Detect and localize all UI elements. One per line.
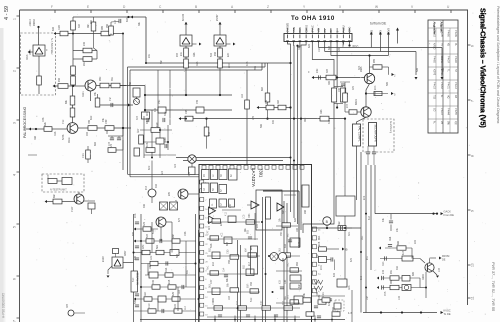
svg-text:71R: 71R <box>62 119 65 124</box>
svg-text:1: 1 <box>13 18 17 20</box>
cluster verticals <box>143 116 145 158</box>
svg-text:08C: 08C <box>304 117 307 122</box>
svg-text:75C: 75C <box>158 99 161 104</box>
svg-text:IC: IC <box>440 95 442 98</box>
diode zigzags right of IC <box>314 280 323 284</box>
svg-text:5R8: 5R8 <box>210 243 213 248</box>
bias chain above V201 <box>72 85 74 123</box>
svg-text:865: 865 <box>132 231 135 236</box>
dashed fragment <box>335 300 344 311</box>
svg-text:P 4-63: P 4-63 <box>433 30 435 37</box>
wire row y110 <box>145 109 232 111</box>
transistor V201 <box>67 123 78 134</box>
svg-text:4C6: 4C6 <box>146 142 149 147</box>
svg-text:KABO: KABO <box>433 43 436 50</box>
long row y118 <box>179 117 181 120</box>
resistor below loop box <box>338 226 346 231</box>
DE arrows <box>370 32 373 35</box>
svg-text:99n: 99n <box>172 233 175 238</box>
transistor T691 <box>364 73 374 83</box>
wire long vertical x123 <box>122 34 124 171</box>
svg-text:7C5: 7C5 <box>384 291 387 296</box>
svg-text:212: 212 <box>208 131 211 136</box>
svg-text:CO: CO <box>433 108 435 112</box>
parallel RC pair <box>72 34 74 51</box>
svg-text:BF: BF <box>329 29 333 33</box>
branch to down arrow x416 <box>380 51 416 53</box>
mixer boxes <box>160 202 168 210</box>
svg-text:TV: TV <box>440 43 442 46</box>
svg-text:kR5: kR5 <box>168 279 171 284</box>
svg-text:8R2: 8R2 <box>90 115 93 120</box>
svg-text:598: 598 <box>282 257 285 262</box>
cluster row 8 <box>134 310 196 312</box>
svg-text:2n6: 2n6 <box>414 239 417 244</box>
collector row of V201 <box>78 127 88 129</box>
row y77 chroma feed <box>313 77 364 79</box>
svg-text:H-P90 030907M5: H-P90 030907M5 <box>2 293 6 318</box>
svg-text:Potentialabfragen und Schaltpl: Potentialabfragen und Schaltpläne / Layo… <box>496 6 500 124</box>
svg-text:FROM: FROM <box>442 255 449 258</box>
resistor chain x88 <box>86 150 91 159</box>
svg-text:045: 045 <box>374 91 377 96</box>
svg-text:W: W <box>375 5 378 9</box>
SECAM OUFR box <box>369 123 377 147</box>
svg-text:GACK: GACK <box>444 210 452 214</box>
transistor circle at IC edge <box>178 189 188 199</box>
emitter to PAL delay <box>357 117 367 124</box>
svg-text:RR9: RR9 <box>58 25 61 30</box>
svg-text:7: 7 <box>471 100 475 102</box>
extra bottom components <box>303 298 311 302</box>
svg-text:11: 11 <box>471 296 475 300</box>
resistor pair on x337 <box>336 86 338 88</box>
transistor T692 <box>361 107 371 117</box>
IC inner components <box>212 219 221 223</box>
svg-text:948: 948 <box>214 51 217 56</box>
svg-text:k84: k84 <box>245 247 248 252</box>
svg-text:SECAM AV: SECAM AV <box>135 273 138 286</box>
svg-text:79C: 79C <box>280 231 283 236</box>
svg-text:995: 995 <box>373 58 376 63</box>
svg-text:k5797: k5797 <box>216 14 219 21</box>
svg-text:0297: 0297 <box>124 250 127 256</box>
svg-text:B: B <box>346 248 348 252</box>
dashed service box top-left <box>21 33 56 95</box>
svg-text:CHRO: CHRO <box>304 25 308 33</box>
svg-text:nkn: nkn <box>338 220 341 225</box>
svg-text:P 4-55: P 4-55 <box>454 108 456 115</box>
svg-text:586: 586 <box>260 123 263 128</box>
svg-text:222: 222 <box>174 303 177 308</box>
svg-text:2n6: 2n6 <box>265 99 268 104</box>
svg-text:71n: 71n <box>109 96 112 101</box>
svg-text:180: 180 <box>296 227 299 232</box>
cluster row 5 <box>145 274 196 276</box>
svg-text:TX: TX <box>380 30 383 33</box>
svg-text:170: 170 <box>252 115 255 120</box>
svg-text:HQ: HQ <box>447 95 449 99</box>
svg-text:P 4-07: P 4-07 <box>447 56 449 63</box>
svg-text:8R3: 8R3 <box>126 17 129 22</box>
svg-text:CR1: CR1 <box>82 153 85 158</box>
svg-text:726: 726 <box>212 297 215 302</box>
svg-text:137: 137 <box>438 267 441 272</box>
svg-text:099: 099 <box>101 25 104 30</box>
wire y228 right of IC <box>312 227 362 229</box>
svg-text:Cn4: Cn4 <box>223 267 226 272</box>
svg-text:603: 603 <box>52 26 55 31</box>
svg-text:DH3: DH3 <box>298 27 302 33</box>
branch to down arrow x442 <box>371 47 442 49</box>
svg-text:0R1: 0R1 <box>361 235 364 240</box>
svg-text:0R1k: 0R1k <box>68 137 71 143</box>
IC inner tall box <box>251 246 258 274</box>
IC inner right blocks <box>290 238 300 247</box>
svg-text:4C3: 4C3 <box>246 61 249 66</box>
svg-text:347: 347 <box>136 115 139 120</box>
svg-text:684: 684 <box>261 86 264 91</box>
wire pin routing to DE <box>318 42 320 48</box>
svg-text:C65: C65 <box>185 109 188 114</box>
svg-text:C57: C57 <box>229 203 232 208</box>
IC top pin squares <box>202 165 206 169</box>
DE arrow 4 <box>396 28 399 31</box>
svg-text:Ausführung: Ausführung <box>389 121 392 134</box>
svg-text:6n8: 6n8 <box>328 45 331 50</box>
collector row V101 <box>96 85 100 87</box>
IC amp triangle 2 <box>277 203 284 211</box>
svg-text:P 4-10: P 4-10 <box>440 108 442 115</box>
svg-text:1C5: 1C5 <box>243 214 246 219</box>
svg-text:5276: 5276 <box>62 134 65 140</box>
svg-text:n84: n84 <box>277 99 280 104</box>
svg-text:4: 4 <box>13 174 17 176</box>
svg-text:kC2: kC2 <box>363 195 366 200</box>
svg-text:R49: R49 <box>338 47 341 52</box>
svg-text:kk1: kk1 <box>250 246 253 250</box>
IC amp triangle 1 <box>251 201 259 209</box>
divider top right <box>109 26 114 35</box>
svg-text:nRn: nRn <box>382 261 385 266</box>
network cluster R1 <box>385 247 412 249</box>
svg-text:Rk8: Rk8 <box>389 236 392 241</box>
svg-text:6: 6 <box>13 278 17 280</box>
svg-text:P 4-62: P 4-62 <box>440 82 442 89</box>
emitter resistor T691 <box>374 91 382 95</box>
svg-text:S: S <box>335 31 339 33</box>
svg-text:LA7437A: LA7437A <box>251 168 256 188</box>
svg-text:427: 427 <box>328 301 331 306</box>
svg-text:83n: 83n <box>298 283 301 288</box>
svg-text:852: 852 <box>243 264 246 269</box>
svg-text:537: 537 <box>146 233 149 238</box>
IC inner bus bundle <box>262 197 264 322</box>
transistor T801 right <box>425 263 434 272</box>
svg-text:2C6: 2C6 <box>134 213 137 218</box>
svg-text:Ck3: Ck3 <box>165 267 168 272</box>
svg-text:n913: n913 <box>26 54 29 60</box>
svg-text:2CR: 2CR <box>320 265 323 270</box>
svg-text:R52: R52 <box>316 291 319 296</box>
svg-text:k47: k47 <box>236 300 239 305</box>
svg-text:n20: n20 <box>212 207 215 212</box>
svg-text:n97: n97 <box>66 303 69 308</box>
svg-text:n92: n92 <box>328 80 331 85</box>
svg-text:361: 361 <box>284 295 287 300</box>
svg-text:86n: 86n <box>282 209 285 214</box>
svg-text:nCC: nCC <box>228 63 231 68</box>
svg-text:353: 353 <box>254 65 257 70</box>
wire left border feed <box>24 128 35 130</box>
svg-text:Rn7: Rn7 <box>137 128 140 133</box>
svg-text:783: 783 <box>250 281 253 286</box>
svg-text:412: 412 <box>225 211 228 216</box>
svg-text:DE: DE <box>442 259 446 262</box>
svg-text:kC5: kC5 <box>318 241 321 246</box>
wire bundle from connector <box>288 42 291 213</box>
svg-text:486: 486 <box>143 203 146 208</box>
svg-text:481: 481 <box>186 269 189 274</box>
svg-text:k95: k95 <box>168 191 171 196</box>
svg-text:672: 672 <box>350 257 353 262</box>
scan edge shading left <box>0 28 4 322</box>
wire pair into IC left <box>128 173 200 175</box>
svg-text:FUBU: FUBU <box>342 25 346 32</box>
svg-text:00C: 00C <box>106 129 109 134</box>
svg-text:889: 889 <box>412 271 415 276</box>
feed drop x247 <box>246 70 248 165</box>
svg-text:to/from DE: to/from DE <box>370 22 387 26</box>
cluster row 2 <box>134 240 196 242</box>
svg-text:SYNC: SYNC <box>311 25 315 32</box>
drop x267 from bus <box>267 63 269 119</box>
IC left pin squares <box>200 180 204 184</box>
svg-text:nR6: nR6 <box>54 131 57 136</box>
svg-text:66n: 66n <box>53 193 56 198</box>
svg-text:288: 288 <box>304 209 307 214</box>
svg-text:828: 828 <box>294 217 297 222</box>
svg-text:666: 666 <box>397 240 400 245</box>
svg-text:nR21: nR21 <box>82 91 85 97</box>
IC inner wires <box>207 221 260 223</box>
PAL COMPL delay box <box>353 124 361 146</box>
svg-text:483: 483 <box>155 183 158 188</box>
svg-text:304: 304 <box>78 23 81 28</box>
svg-text:948: 948 <box>58 77 61 82</box>
bottom-left small circle <box>68 310 74 316</box>
svg-text:n68: n68 <box>34 135 37 140</box>
svg-text:676: 676 <box>172 291 175 296</box>
svg-text:589: 589 <box>176 253 179 258</box>
emitter V101 down <box>90 91 92 101</box>
svg-text:726: 726 <box>152 279 155 284</box>
svg-text:P 4-12: P 4-12 <box>454 82 456 89</box>
boxed transistor lower-left <box>112 257 123 268</box>
svg-text:07R: 07R <box>142 244 145 249</box>
network above collector row <box>98 104 133 106</box>
collector V101 to cluster <box>120 85 145 87</box>
cluster components <box>146 118 148 122</box>
svg-text:222: 222 <box>256 223 259 228</box>
collector network T691 <box>369 56 371 74</box>
svg-text:AN: AN <box>323 29 327 33</box>
cluster row 3 <box>134 252 196 254</box>
svg-text:247: 247 <box>346 103 349 108</box>
bottom components right of IC <box>312 295 345 297</box>
svg-text:Rn3: Rn3 <box>348 285 351 290</box>
wire secondary bus <box>128 66 266 68</box>
svg-text:5: 5 <box>13 226 17 228</box>
svg-text:617: 617 <box>402 250 405 255</box>
svg-text:51R: 51R <box>250 297 253 302</box>
svg-text:1k3: 1k3 <box>178 289 181 294</box>
svg-text:883: 883 <box>94 141 97 146</box>
svg-text:F: F <box>51 5 53 9</box>
svg-text:462: 462 <box>396 265 399 270</box>
wire pin to right loop <box>303 42 334 234</box>
wire bus drop x340 <box>336 42 338 87</box>
svg-text:620: 620 <box>308 43 311 48</box>
svg-text:16613: 16613 <box>29 19 32 26</box>
svg-text:Rn1: Rn1 <box>207 265 210 270</box>
IC inner block row 2 <box>202 183 210 193</box>
scan speckle <box>134 179 137 182</box>
svg-text:114: 114 <box>184 306 187 310</box>
svg-text:6: 6 <box>471 45 475 47</box>
svg-text:90830: 90830 <box>33 19 36 26</box>
svg-text:P 4-09: P 4-09 <box>454 30 456 37</box>
IC tall blocks <box>266 197 271 219</box>
svg-text:CVB: CVB <box>388 28 391 33</box>
svg-text:6n3: 6n3 <box>161 170 164 175</box>
svg-text:P 4-66: P 4-66 <box>447 30 449 37</box>
cluster row 4 <box>141 263 196 265</box>
cluster rail x133 <box>133 214 135 322</box>
svg-text:351: 351 <box>111 76 114 81</box>
svg-text:7127: 7127 <box>71 206 74 212</box>
svg-text:PAL COMPL: PAL COMPL <box>358 126 362 142</box>
cap on y213 <box>390 214 392 220</box>
svg-text:99R: 99R <box>99 76 102 81</box>
svg-text:KVSC: KVSC <box>444 309 451 313</box>
svg-text:614: 614 <box>368 215 371 220</box>
svg-text:585: 585 <box>386 81 389 86</box>
vertical label box SECAM switch <box>131 271 138 292</box>
svg-text:492: 492 <box>272 119 275 124</box>
svg-text:C80: C80 <box>227 249 230 254</box>
svg-text:k31: k31 <box>180 51 183 56</box>
IC bottom row 2 <box>218 314 222 316</box>
svg-text:2C3: 2C3 <box>47 174 50 179</box>
svg-text:957: 957 <box>282 300 285 305</box>
svg-text:215: 215 <box>382 269 385 274</box>
svg-text:526: 526 <box>416 67 419 72</box>
svg-text:P 4-44: P 4-44 <box>447 108 449 115</box>
svg-text:CRO: CRO <box>348 27 352 33</box>
svg-text:Signal-Chassis – Video/Chroma: Signal-Chassis – Video/Chroma (V5) <box>479 8 488 128</box>
svg-text:C1C: C1C <box>148 303 151 308</box>
svg-text:10: 10 <box>471 263 475 267</box>
wire main top bus <box>73 16 146 18</box>
svg-text:51C: 51C <box>132 277 135 282</box>
svg-text:3k3: 3k3 <box>279 247 282 252</box>
svg-text:C07: C07 <box>338 87 341 92</box>
svg-text:873: 873 <box>110 143 113 148</box>
svg-text:QQ: QQ <box>454 121 456 125</box>
svg-text:505: 505 <box>134 299 137 304</box>
svg-text:k2C: k2C <box>227 52 230 57</box>
decoupling caps below <box>122 128 124 136</box>
row y107 left of bundle <box>257 106 259 109</box>
svg-text:140: 140 <box>398 295 401 300</box>
amp triangle pair <box>209 207 216 215</box>
svg-text:803: 803 <box>284 243 287 248</box>
svg-text:2Cn: 2Cn <box>374 85 377 90</box>
svg-text:R86: R86 <box>193 52 196 57</box>
svg-text:R50: R50 <box>164 137 167 142</box>
dashed SECAM box <box>363 119 394 152</box>
wire below 7340 with resistor <box>38 56 40 76</box>
svg-text:040: 040 <box>86 131 89 136</box>
base network T692 <box>345 111 361 113</box>
svg-text:901: 901 <box>390 269 393 274</box>
row y213 to DE <box>375 213 436 215</box>
svg-text:RC4: RC4 <box>298 45 301 50</box>
stems below boxed transistors <box>184 48 189 57</box>
svg-text:C47: C47 <box>210 279 213 284</box>
svg-text:B: B <box>195 5 197 9</box>
IC inner block row 1 <box>202 170 210 180</box>
svg-text:8: 8 <box>471 155 475 157</box>
svg-text:P 4-18: P 4-18 <box>433 82 435 89</box>
svg-text:174: 174 <box>114 19 117 24</box>
svg-text:nn3: nn3 <box>174 163 177 168</box>
row y249 to label B <box>319 247 327 251</box>
cluster verticals inner <box>151 222 153 253</box>
svg-text:CR1: CR1 <box>322 292 325 297</box>
svg-text:50n: 50n <box>160 59 163 64</box>
cluster rail x195 <box>195 214 197 322</box>
svg-text:9: 9 <box>471 210 475 212</box>
svg-text:937: 937 <box>176 52 179 57</box>
svg-text:312: 312 <box>328 119 331 124</box>
svg-text:N-7,5/100 kHz: N-7,5/100 kHz <box>50 38 54 55</box>
svg-text:PAL PROCESSING: PAL PROCESSING <box>23 106 27 138</box>
wire row y95 <box>146 94 232 96</box>
svg-text:4 - 59: 4 - 59 <box>4 6 10 20</box>
svg-text:AB: AB <box>454 95 457 99</box>
svg-text:352: 352 <box>90 19 93 24</box>
emitter path to T692 <box>366 84 370 107</box>
svg-text:(90V): (90V) <box>352 44 358 48</box>
svg-text:From DE: From DE <box>444 213 455 217</box>
svg-text:k33: k33 <box>279 279 282 284</box>
emitter arrow T801 <box>433 271 437 275</box>
upper mid component x136 <box>133 88 140 97</box>
svg-text:4R9: 4R9 <box>156 122 159 127</box>
svg-text:5kR: 5kR <box>156 244 159 249</box>
boxed transistor 7340 <box>33 45 45 56</box>
svg-text:k17: k17 <box>248 261 251 266</box>
IC inner bus bundle 2 <box>237 240 239 322</box>
svg-text:23R: 23R <box>316 68 319 73</box>
svg-text:0n7: 0n7 <box>208 225 211 230</box>
svg-text:7391: 7391 <box>259 168 264 178</box>
svg-text:780: 780 <box>228 259 231 264</box>
svg-text:917: 917 <box>145 185 148 190</box>
IC bottom row components <box>214 306 223 310</box>
